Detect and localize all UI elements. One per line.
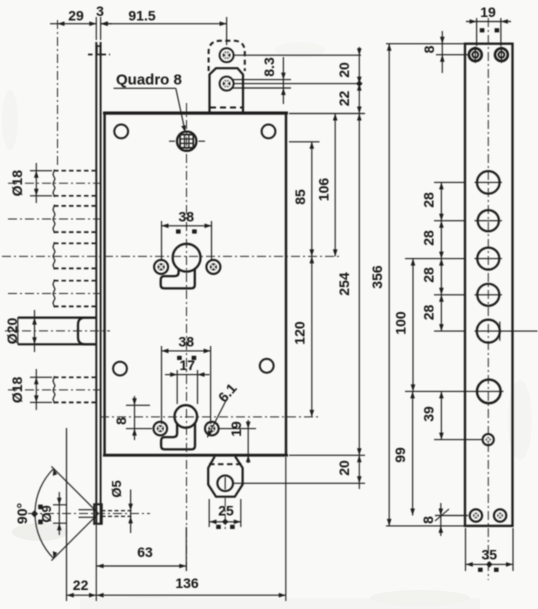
top screws extension left (436, 54, 468, 56)
striker plate centerline (487, 18, 489, 580)
vertical centerline of cylinders (186, 103, 188, 571)
dimension 106 (316, 114, 338, 257)
90 degree swing fan (35, 466, 98, 560)
plate hole 1 (475, 171, 503, 194)
faceplate back edge (100, 42, 102, 524)
dimension 85 (292, 142, 314, 417)
svg-text:35: 35 (482, 547, 498, 563)
dimension Ø20 (4, 310, 37, 352)
svg-text:29: 29 (68, 8, 84, 24)
lower cylinder fixing screw left (154, 422, 168, 436)
threaded stud boss 1 (hidden) (53, 170, 96, 198)
plate top screw left (469, 47, 482, 63)
upper cylinder horizontal centerline (2, 255, 341, 257)
top fixing tab dashed dome (209, 41, 245, 71)
Ø5 hidden hole (102, 511, 135, 517)
rivet post mid-right (260, 359, 274, 373)
dimension 100 (393, 259, 416, 392)
dimension 356 (369, 44, 392, 526)
dimension 3 (faceplate thickness) (96, 3, 112, 40)
lower cylinder fixing screw right (205, 422, 219, 436)
label Ø9 (39, 505, 54, 522)
dimension 19 plate top (466, 4, 511, 46)
boss 1 centerline (8, 182, 100, 184)
bottom fixing tab (208, 457, 242, 497)
svg-text:Quadro 8: Quadro 8 (116, 72, 182, 89)
svg-text:28: 28 (421, 192, 437, 208)
rivet post top-right (262, 124, 276, 138)
plate hole 4 (475, 284, 503, 306)
svg-text:100: 100 (393, 311, 409, 335)
dimension 20 top right (336, 62, 352, 78)
upper euro cylinder cutout (161, 244, 201, 289)
svg-text:28: 28 (421, 230, 437, 246)
body top edge extension right (289, 113, 365, 115)
boss 4 centerline (8, 293, 100, 295)
bottom tab hole leader (234, 482, 366, 484)
svg-text:Ø5: Ø5 (109, 480, 124, 497)
faceplate front edge (left view) (95, 42, 97, 524)
threaded stud boss 5 (hidden) (53, 376, 96, 404)
top tab hole 1 (220, 48, 234, 62)
dimension Ø9 arrows (53, 492, 66, 535)
label 90 degrees (14, 503, 30, 524)
dimension 19 lower cutout (219, 420, 256, 463)
plate top screw right (495, 47, 508, 63)
threaded stud boss 4 (hidden) (53, 280, 96, 308)
label Quadro 8 with leader (114, 72, 186, 133)
dimension 120 (292, 321, 308, 345)
plate bottom screw right (494, 509, 506, 521)
dimension 8 plate bottom (420, 503, 449, 536)
latch rod centerline (5, 330, 110, 332)
dimension 63 (96, 527, 186, 571)
dimension 22 bottom (67, 428, 97, 601)
svg-text:63: 63 (137, 544, 153, 560)
plate bottom edge extension left (386, 525, 464, 527)
svg-text:38: 38 (179, 334, 195, 350)
dimension 136 bottom (96, 457, 285, 601)
plate latch hole (405, 380, 504, 404)
dimension 17 lower cutout (165, 357, 210, 404)
svg-text:85: 85 (292, 189, 308, 205)
dimension Ø18 top (9, 163, 52, 203)
lock body outline (103, 113, 288, 455)
svg-text:Ø18: Ø18 (9, 376, 25, 403)
svg-text:120: 120 (292, 321, 308, 345)
tab hole 1 leader line (234, 54, 362, 56)
upper cylinder fixing screw left (154, 260, 168, 274)
label 6.1 with leader (207, 380, 240, 438)
svg-text:19: 19 (480, 4, 496, 20)
svg-text:38: 38 (179, 209, 195, 225)
dimension 20 bottom right (336, 460, 352, 476)
svg-text:8: 8 (421, 45, 437, 53)
svg-text:28: 28 (421, 267, 437, 283)
dimension 99 (392, 391, 415, 515)
lower cylinder horizontal centerline (100, 416, 319, 418)
dimension Ø18 bottom (9, 369, 52, 410)
Ø5 hole centerline (28, 513, 150, 515)
plate small hole (434, 434, 494, 445)
svg-text:99: 99 (392, 447, 408, 463)
top tab hole 2 (220, 77, 234, 91)
plate bottom screw left (470, 509, 482, 521)
plate hole 2 (475, 210, 503, 231)
svg-text:254: 254 (336, 272, 352, 296)
svg-text:Ø20: Ø20 (4, 318, 20, 345)
svg-text:17: 17 (180, 357, 196, 373)
svg-text:20: 20 (336, 460, 352, 476)
fan pivot mark (31, 510, 38, 517)
threaded stud boss 3 (hidden) (53, 242, 96, 270)
faceplate top screw notch (88, 46, 110, 55)
svg-text:25: 25 (218, 503, 234, 519)
dimension 22 top right (336, 91, 352, 107)
centering squares at Ø9 (38, 505, 43, 525)
dimension 35 (466, 528, 514, 572)
rivet post mid-left (113, 362, 127, 376)
svg-text:91.5: 91.5 (128, 8, 155, 24)
hole extension lines left (405, 182, 464, 331)
body bottom edge extension right (289, 454, 365, 456)
upper cylinder fixing screw right (206, 260, 220, 274)
plate top edge extension left (386, 43, 464, 45)
dimension 38 upper cutout (162, 209, 212, 262)
dimension 39 (421, 391, 444, 439)
Quadro 8 square follower hole (169, 132, 205, 151)
dimension chain 28x4 (421, 182, 444, 331)
svg-text:8: 8 (113, 417, 129, 425)
svg-text:8.3: 8.3 (261, 57, 277, 77)
top fixing tab solid (210, 68, 244, 112)
dimension Ø5 (109, 480, 133, 533)
dimension 25 bottom tab (209, 498, 241, 532)
svg-text:28: 28 (421, 305, 437, 321)
Ø9 hole through escutcheon (79, 504, 102, 524)
svg-text:3: 3 (96, 3, 104, 19)
plate hole 5 (475, 320, 538, 343)
latch rod Ø20 (18, 318, 96, 345)
dimension 254 (336, 272, 352, 296)
bottom tab hole (217, 476, 233, 492)
striker plate outline (465, 44, 513, 526)
dimension 8 plate top (421, 31, 445, 73)
lower euro cylinder cutout (161, 405, 197, 449)
dimension 8.3 tab hole (232, 57, 291, 104)
svg-text:20: 20 (336, 62, 352, 78)
threaded stud boss 2 (hidden) (53, 205, 96, 233)
boss 5 centerline (8, 389, 100, 391)
svg-text:106: 106 (316, 178, 332, 202)
dimension 29 (50, 8, 96, 169)
quadro center extension right (289, 141, 320, 143)
svg-text:8: 8 (420, 516, 436, 524)
dimension 38 lower cutout (162, 334, 211, 425)
svg-text:22: 22 (336, 91, 352, 107)
svg-text:22: 22 (73, 577, 89, 593)
svg-text:356: 356 (369, 265, 385, 289)
svg-text:136: 136 (175, 575, 199, 591)
dimension 91.5 (101, 8, 227, 46)
svg-text:39: 39 (421, 406, 437, 422)
svg-text:Ø18: Ø18 (9, 170, 25, 197)
dimension 8 lower cutout (113, 396, 152, 440)
boss 2 centerline (8, 218, 100, 220)
rivet post top-left (114, 124, 128, 138)
svg-text:90°: 90° (14, 503, 30, 524)
svg-text:19: 19 (228, 421, 244, 437)
plate hole 3 (475, 248, 503, 270)
dimension chain line right (20/22/254/20) (356, 47, 363, 489)
tab hole 2 leader line (234, 83, 362, 85)
bottom screws extension left (435, 515, 468, 517)
